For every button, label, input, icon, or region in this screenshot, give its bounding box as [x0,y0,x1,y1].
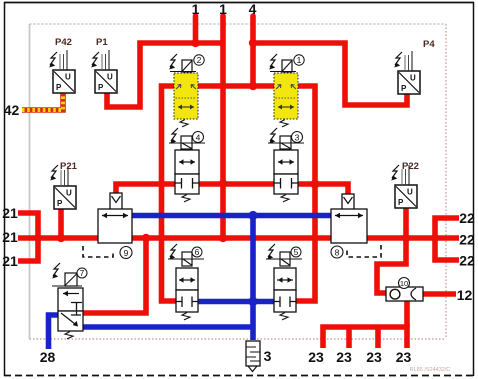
node 21 rail junction [34,234,42,242]
valve U1 (yellow proportional valve) [269,54,298,127]
svg-text:4: 4 [196,132,201,142]
valve U2 circled 2 [194,55,204,65]
svg-text:23: 23 [366,349,382,365]
svg-text:9: 9 [124,248,129,258]
valve U3 (2/2 solenoid valve) [268,128,304,202]
wire P22 drop and valve10 feed [377,207,406,293]
svg-text:7: 7 [80,268,85,278]
svg-text:P4: P4 [423,39,435,50]
svg-text:2: 2 [197,55,202,65]
svg-text:1: 1 [297,55,302,65]
pressure sensor P42 bolt [49,52,57,68]
outer frame top [4,2,474,4]
wire line-4 branch to P4 [253,43,407,105]
wire blue valve7 bottom to center vertical [83,324,253,330]
wire valve1 right down to valve5 [296,86,315,301]
pressure sensor P1 [95,50,117,93]
svg-text:5: 5 [294,247,299,257]
node P22 drop junction [402,234,410,242]
wire main bus left (21 to valve9) [18,235,98,241]
svg-text:22: 22 [459,253,475,269]
valve U8 circled 8 [331,246,343,258]
pressure sensor P22 [395,165,417,208]
valve U6 circled 6 [192,247,202,257]
svg-text:22: 22 [459,232,475,248]
node valve3-4 line / 1b junction [219,179,227,187]
node line4 to valve1-2 supply junction [249,82,257,90]
pressure sensor P21 bolt [50,165,58,181]
valve U5 circled 5 [291,247,301,257]
check valve U10 circled 10 [399,278,410,289]
svg-text:28: 28 [40,349,56,365]
pressure sensor P42 [53,50,75,93]
valve U8 (main changeover valve) [331,194,381,257]
wire 21 rail bracket [18,213,38,261]
filter-silencer 3 [246,341,260,372]
wire P1 to line-1 header [107,43,223,107]
wire valve3 right to valve8 pilot [296,184,348,194]
svg-text:12: 12 [457,287,473,303]
outer frame bottom (dashed) [4,375,474,377]
svg-text:P42: P42 [55,37,72,48]
svg-text:P22: P22 [402,161,419,172]
wire 22 rail bracket [435,218,459,260]
wire main bus right (valve8 to 22) [367,235,459,241]
node line1a/P1 junction [191,39,199,47]
pressure sensor P21 [54,166,76,209]
wire P21 drop [58,207,64,238]
wire valve2 right to valve1 left [198,83,274,89]
svg-text:6: 6 [195,247,200,257]
inner dotted border right [445,24,447,339]
pressure sensor P4 [398,51,420,94]
wire 42 hatched line base [22,93,63,110]
wire main bus middle (valve9 to valve8) [132,235,331,241]
svg-text:8: 8 [335,248,340,258]
svg-text:22: 22 [459,210,475,226]
check valve U10 [386,287,423,301]
svg-text:4: 4 [249,1,257,17]
valve U7 (3/2 solenoid valve) [52,263,83,339]
pressure sensor P1 bolt [91,52,99,68]
svg-text:P1: P1 [96,37,108,48]
wire valve4 right to valve3 left [199,181,274,187]
inner dotted border top [30,23,447,25]
wire blue valve7 left to 28 [49,315,60,349]
svg-text:10: 10 [400,279,408,288]
pressure sensor P4 bolt [394,52,402,68]
wire blue center vertical to filter3 [250,216,256,341]
wire blue valve9 to valve8 [132,213,331,219]
valve U9 (main changeover valve) [83,193,132,257]
node 22 rail junction [431,234,439,242]
valve U2 (yellow proportional valve) [169,54,198,127]
wire 23 rail with legs [323,327,407,348]
svg-text:1: 1 [192,1,200,17]
valve U4 (2/2 solenoid valve) [169,128,205,202]
wire terminal 1b drop (long vertical to main bus) [220,16,226,238]
svg-text:23: 23 [396,349,412,365]
wire valve7 feed riser [83,238,146,313]
valve U4 circled 4 [193,132,204,143]
junction dots red [34,39,439,242]
wire blue valve6 to valve5 [198,299,274,305]
svg-text:3: 3 [264,348,272,364]
svg-text:42: 42 [4,102,20,118]
wire valve9 pilot feed to valve4 left port [116,184,175,194]
valve U1 circled 1 [294,55,304,65]
node line4/P4 branch junction [249,39,257,47]
svg-text:21: 21 [2,253,18,269]
svg-text:3: 3 [295,132,300,142]
svg-text:1: 1 [219,1,227,17]
wire valve10 down leg [404,296,410,327]
outer frame left [4,2,6,376]
valve U6 (2/2 solenoid valve) [168,244,204,320]
valve U7 circled 7 [77,268,87,278]
valve U9 circled 9 [120,247,132,259]
node blue center top junction [248,211,257,220]
inner dotted border bottom [30,338,447,340]
svg-text:23: 23 [336,349,352,365]
wire terminal 4 drop [250,16,256,86]
svg-text:P21: P21 [60,161,78,172]
node valve7 riser junction [142,234,150,242]
inner dotted border left [29,24,31,339]
node P21 drop junction [57,234,65,242]
wire 42 hatched line overlay [22,93,63,110]
node 1b bus junction [219,234,227,242]
wire valve2 left port down to valve6 [162,86,177,301]
svg-text:21: 21 [2,205,18,221]
svg-text:RL85 /S24432/C: RL85 /S24432/C [410,367,451,373]
wire valve10 out to 12 [423,291,456,297]
outer frame right [473,2,475,376]
valve U3 circled 3 [292,132,303,143]
valve U5 (2/2 solenoid valve) [266,244,302,320]
pressure sensor P22 bolt [391,165,399,181]
node blue valve5-6 junction [248,297,257,306]
svg-text:23: 23 [308,349,324,365]
wire terminal 1a drop [193,16,199,43]
svg-text:21: 21 [2,229,18,245]
node valve3 out / valve1 vertical junction [310,179,319,188]
